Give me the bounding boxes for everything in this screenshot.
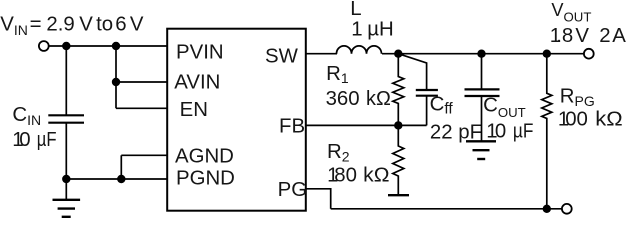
node RPG tap xyxy=(543,50,551,58)
wire SW to inductor xyxy=(306,53,337,55)
svg-text:22 pF: 22 pF xyxy=(430,121,482,143)
svg-text:1.8V2A: 1.8V2A xyxy=(550,25,627,47)
node SW/R1 junction xyxy=(394,50,402,58)
resistor R2 xyxy=(393,125,404,195)
svg-text:EN: EN xyxy=(180,99,208,121)
svg-text:PGND: PGND xyxy=(176,168,235,190)
svg-text:PG: PG xyxy=(278,179,307,201)
node AVIN junction xyxy=(112,78,120,86)
terminal PG output xyxy=(562,204,572,214)
svg-text:1µH: 1µH xyxy=(351,18,393,40)
svg-text:AVIN: AVIN xyxy=(174,71,220,93)
ground GND input xyxy=(53,200,81,217)
node AVIN tap xyxy=(112,42,120,50)
svg-text:L: L xyxy=(350,0,361,20)
resistor R1 xyxy=(393,54,404,126)
svg-text:SW: SW xyxy=(265,46,299,68)
svg-text:FB: FB xyxy=(279,116,305,138)
wire to AGND pin xyxy=(121,154,167,156)
terminal VOUT output xyxy=(584,49,594,59)
ground COUT xyxy=(466,141,496,159)
capacitor Cff xyxy=(398,54,438,126)
wire FB net xyxy=(306,124,427,126)
wire AGND vertical xyxy=(120,155,122,179)
terminal VIN input xyxy=(39,41,49,51)
wire VOUT rail xyxy=(382,53,584,55)
wire to EN pin xyxy=(116,107,167,109)
wire CIN lead down xyxy=(65,46,67,115)
wire PG bottom rail xyxy=(331,208,562,210)
wire PGND rail xyxy=(66,178,167,180)
node PGND ground junction xyxy=(62,175,70,183)
capacitor CIN xyxy=(48,115,84,179)
resistor RPG xyxy=(542,54,552,209)
IC U1 regulator xyxy=(167,29,306,211)
svg-text:AGND: AGND xyxy=(175,146,234,168)
node AGND tap xyxy=(117,175,125,183)
node RPG bottom junction xyxy=(543,205,551,213)
node FB junction xyxy=(394,121,402,129)
ground R2 bar xyxy=(388,194,409,196)
node COUT tap xyxy=(477,50,485,58)
wire PG jog xyxy=(306,189,331,209)
capacitor COUT xyxy=(465,54,500,142)
svg-text:PVIN: PVIN xyxy=(176,42,224,64)
svg-text:360kΩ: 360kΩ xyxy=(326,88,391,110)
wire VIN rail to PVIN xyxy=(49,45,167,47)
wire ground stem xyxy=(65,179,67,200)
node CIN tap xyxy=(62,42,70,50)
wire AVIN/EN vertical xyxy=(115,46,117,108)
wire to AVIN pin xyxy=(116,81,167,83)
inductor L xyxy=(337,46,382,54)
